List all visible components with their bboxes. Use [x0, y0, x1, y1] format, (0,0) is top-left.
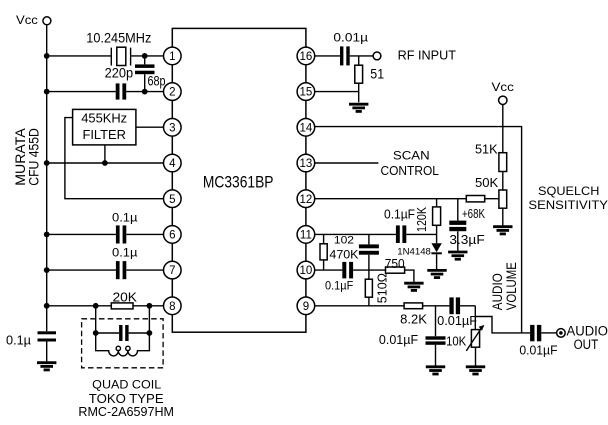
Vcc terminal right — [499, 96, 507, 104]
resistor 510 — [365, 270, 372, 306]
node 20K right — [147, 303, 153, 309]
pin 2 — [164, 83, 182, 101]
wire pin16 line — [315, 55, 374, 57]
wire 51K to 50K — [502, 172, 504, 191]
svg-text:SQUELCH: SQUELCH — [538, 184, 599, 198]
svg-text:20K: 20K — [113, 290, 138, 304]
wire Vcc left rail — [46, 25, 48, 306]
svg-text:0.1µF: 0.1µF — [325, 278, 353, 292]
pin 5 — [164, 190, 182, 208]
svg-text:VOLUME: VOLUME — [503, 262, 519, 310]
svg-text:8.2K: 8.2K — [400, 312, 427, 327]
quad coil dashed box — [82, 319, 164, 368]
wire audio node — [475, 306, 530, 333]
audio out terminal — [557, 329, 566, 338]
node rail-pin1 — [44, 53, 50, 59]
svg-text:MC3361BP: MC3361BP — [203, 173, 274, 191]
resistor 8.2K — [404, 303, 423, 309]
pin 3 — [164, 119, 182, 137]
node quad coil right — [147, 330, 153, 336]
svg-text:QUAD COIL: QUAD COIL — [92, 377, 161, 391]
svg-text:10.245MHz: 10.245MHz — [86, 30, 151, 46]
wire pin15 line — [315, 91, 359, 93]
pin 13 — [297, 154, 315, 172]
pin 4 — [164, 154, 182, 172]
wire pin6 line left — [47, 233, 164, 235]
ceramic filter 455KHz FILTER box — [73, 109, 136, 144]
capacitor 0.1uF pin11 — [396, 225, 406, 243]
svg-text:13: 13 — [300, 158, 313, 170]
pin 9 — [297, 297, 315, 315]
resistor 20K — [111, 303, 133, 309]
svg-text:1: 1 — [169, 51, 175, 63]
svg-text:10K: 10K — [446, 333, 466, 348]
svg-text:4: 4 — [169, 158, 176, 170]
svg-text:120K: 120K — [414, 207, 429, 232]
svg-text:2: 2 — [169, 87, 175, 99]
pin 10 — [297, 261, 315, 279]
ground 10K pot — [466, 367, 485, 374]
ground 51 resistor — [349, 104, 368, 111]
resistor 470K — [320, 234, 327, 270]
svg-text:12: 12 — [300, 194, 313, 206]
wire 50K to ground — [502, 208, 504, 225]
capacitor quad coil — [96, 325, 150, 341]
pin 7 — [164, 261, 182, 279]
wire pin9 line — [315, 305, 476, 307]
svg-text:14: 14 — [300, 122, 313, 134]
svg-text:455KHz: 455KHz — [81, 111, 127, 126]
inductor quad coil — [96, 333, 150, 356]
Vcc terminal left — [43, 17, 51, 25]
pin 16 — [297, 47, 315, 65]
svg-text:11: 11 — [300, 230, 312, 242]
svg-text:0.1µF: 0.1µF — [384, 207, 415, 221]
svg-text:0.01µF: 0.01µF — [379, 333, 419, 347]
svg-text:470K: 470K — [329, 248, 358, 261]
resistor 68K — [466, 196, 484, 202]
svg-text:1N4148: 1N4148 — [397, 246, 431, 256]
potentiometer 10K — [466, 325, 484, 366]
ground 0.01uF shunt — [426, 367, 445, 374]
svg-text:Vcc: Vcc — [492, 80, 514, 94]
svg-text:10: 10 — [300, 265, 313, 277]
pin 12 — [297, 190, 315, 208]
node quad coil left — [93, 330, 99, 336]
ground diode — [427, 270, 446, 277]
svg-text:3.3µF: 3.3µF — [449, 232, 484, 247]
crystal 10.245MHz — [111, 47, 130, 65]
pin 8 — [164, 297, 182, 315]
svg-text:0.1µ: 0.1µ — [112, 245, 138, 259]
svg-text:68p: 68p — [148, 74, 166, 89]
pin 6 — [164, 226, 182, 244]
wire filter to pin3 — [136, 126, 164, 128]
ground rail bottom — [37, 363, 56, 370]
svg-text:220p: 220p — [105, 65, 134, 80]
svg-text:CONTROL: CONTROL — [381, 163, 439, 178]
resistor 51 — [355, 56, 363, 102]
wire Vcc right drop — [502, 105, 504, 153]
svg-text:FILTER: FILTER — [82, 127, 126, 142]
svg-text:51: 51 — [370, 65, 384, 81]
capacitor 220p — [116, 83, 127, 99]
svg-text:0.1µ: 0.1µ — [112, 211, 138, 225]
svg-text:RF INPUT: RF INPUT — [398, 48, 456, 63]
wire quad coil right drop — [148, 306, 150, 333]
svg-text:RMC-2A6597HM: RMC-2A6597HM — [78, 404, 174, 419]
svg-text:3: 3 — [169, 122, 175, 134]
node rail-pin7 — [44, 267, 50, 273]
wire pin8 line left — [47, 305, 164, 307]
node filter-pin4 — [102, 160, 108, 166]
wire pin10 line — [315, 269, 386, 271]
svg-text:8: 8 — [169, 301, 175, 313]
capacitor 0.01uF shunt — [426, 306, 446, 366]
pin 14 — [297, 119, 315, 137]
svg-text:5: 5 — [169, 194, 175, 206]
wire pin7 line left — [47, 269, 164, 271]
capacitor 68p — [135, 56, 155, 92]
svg-text:0.01µF: 0.01µF — [519, 342, 557, 357]
node rail-pin4 — [44, 160, 50, 166]
RF input terminal — [373, 52, 381, 60]
wire filter bottom to pin4 line — [104, 145, 106, 163]
wire pin14 line — [315, 127, 522, 333]
capacitor 0.01uF audio out — [530, 325, 557, 341]
pin 11 — [297, 226, 315, 244]
node 20K left — [93, 303, 99, 309]
node crystal cap-pin2 — [142, 89, 148, 95]
ground 3.3uF — [448, 252, 467, 259]
resistor 51K — [499, 153, 507, 172]
svg-text:9: 9 — [303, 301, 309, 313]
wire quad coil left drop — [95, 306, 97, 333]
potentiometer 50K — [499, 190, 507, 208]
node rail-pin2 — [44, 89, 50, 95]
resistor 750 — [386, 267, 405, 273]
capacitor 0.01u RF — [340, 46, 350, 65]
capacitor 0.1u pin6 — [116, 225, 126, 243]
svg-text:0.01µ: 0.01µ — [333, 31, 368, 45]
svg-text:CFU 455D: CFU 455D — [26, 128, 42, 186]
wire 750 to ground — [405, 270, 414, 282]
diode 1N4148 — [431, 243, 441, 269]
pin 15 — [297, 83, 315, 101]
svg-text:15: 15 — [300, 87, 313, 99]
svg-text:0.1µ: 0.1µ — [6, 333, 31, 348]
svg-text:510Ω: 510Ω — [374, 273, 389, 303]
capacitor 0.1u pin7 — [116, 261, 126, 279]
wire pin1 line left — [47, 55, 164, 57]
capacitor 0.01uF series pin9 — [449, 297, 460, 314]
wire filter left to pin5 — [65, 118, 164, 199]
wire pin4 line left — [47, 162, 164, 164]
IC U1 MC3361BP body — [172, 28, 306, 332]
resistor 120K — [433, 199, 441, 244]
capacitor 0.1u rail bottom — [38, 306, 57, 362]
svg-text:7: 7 — [169, 265, 175, 277]
ground 750 — [404, 283, 423, 290]
wire pin12 line — [315, 198, 499, 200]
node crystal-pin1 — [142, 53, 148, 59]
capacitor 3.3uF — [449, 199, 466, 251]
node rail-pin8 — [44, 303, 50, 309]
node rail-pin6 — [44, 232, 50, 238]
wire pin11 line — [315, 233, 437, 235]
svg-text:750: 750 — [385, 256, 405, 271]
wire pin13 line — [315, 162, 379, 164]
svg-text:SCAN: SCAN — [393, 148, 430, 162]
svg-text:SENSITIVITY: SENSITIVITY — [528, 198, 608, 212]
capacitor 102 — [359, 234, 379, 270]
svg-text:102: 102 — [334, 235, 354, 247]
svg-text:51K: 51K — [475, 143, 498, 157]
svg-text:0.01µF: 0.01µF — [437, 314, 477, 328]
svg-text:+68K: +68K — [462, 207, 486, 221]
capacitor 0.1uF pin10 — [342, 262, 353, 279]
svg-text:OUT: OUT — [574, 337, 599, 352]
svg-text:6: 6 — [169, 230, 175, 242]
pin 1 — [164, 47, 182, 65]
ground 50K pot — [493, 227, 512, 234]
svg-text:Vcc: Vcc — [16, 13, 38, 27]
svg-text:16: 16 — [300, 51, 313, 63]
svg-text:50K: 50K — [475, 176, 499, 190]
wire pin2 line left — [47, 91, 164, 93]
